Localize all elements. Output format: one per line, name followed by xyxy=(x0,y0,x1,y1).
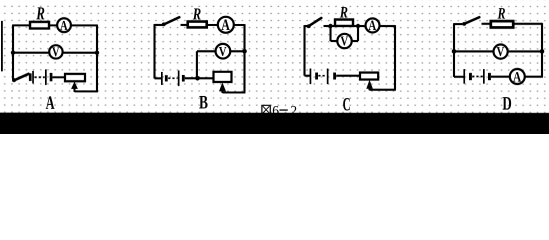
svg-text:R: R xyxy=(192,4,201,23)
rheostat (circuit A) xyxy=(65,74,85,81)
junction dot A left xyxy=(11,50,15,54)
wire C voltmeter loop left drop xyxy=(329,26,331,41)
voltmeter V4 (circuit D) xyxy=(494,45,508,61)
svg-text:A: A xyxy=(46,93,55,114)
scan black bar bottom xyxy=(0,113,549,135)
svg-text:C: C xyxy=(343,94,351,115)
wire C voltmeter loop right riser xyxy=(357,26,359,41)
wire C top under resistor xyxy=(353,25,367,27)
wire B top after switch xyxy=(181,24,191,26)
wire D right vertical xyxy=(541,23,543,77)
resistor R (circuit C) xyxy=(335,20,353,26)
junction dot C loop left xyxy=(328,24,332,28)
wire C voltmeter loop bottom left xyxy=(331,40,339,42)
wire C top left xyxy=(305,25,310,27)
svg-text:R: R xyxy=(497,6,506,23)
svg-text:R: R xyxy=(339,5,348,22)
rheostat slider arrow (circuit C) xyxy=(366,80,373,89)
wire battery dashes (circuit B) xyxy=(168,77,177,79)
svg-text:D: D xyxy=(502,93,511,114)
wire B top right xyxy=(206,24,244,26)
ammeter A2 (circuit B) xyxy=(218,17,234,34)
ammeter A4 (circuit D) xyxy=(510,69,525,86)
junction dot D right xyxy=(540,49,545,54)
battery (circuit A) xyxy=(29,69,53,85)
junction dot D left xyxy=(452,49,457,54)
wire D bottom left xyxy=(454,76,464,78)
junction dot A right xyxy=(95,51,99,55)
wire A bottom right segment xyxy=(74,90,98,92)
wire C bottom segment xyxy=(369,89,395,91)
switch pivot dot (circuit C) xyxy=(307,24,311,28)
svg-text:A: A xyxy=(221,17,230,34)
svg-text:V: V xyxy=(340,35,348,50)
svg-text:A: A xyxy=(368,18,376,34)
wire battery dashes (circuit A) xyxy=(34,76,44,78)
voltmeter V1 (circuit A) xyxy=(49,44,62,59)
svg-text:V: V xyxy=(219,45,227,60)
svg-text:A: A xyxy=(513,70,521,86)
svg-text:R: R xyxy=(36,4,45,24)
wire battery dashes (circuit C) xyxy=(318,75,326,77)
resistor R (circuit D) xyxy=(491,21,513,27)
wire C battery to rheostat xyxy=(336,75,361,77)
wire B battery row xyxy=(154,77,161,79)
wire C left vertical xyxy=(303,25,305,76)
switch pivot dot (circuit D) xyxy=(462,22,466,26)
wire B voltmeter row xyxy=(197,50,245,52)
rheostat slider arrow (circuit A) xyxy=(71,81,78,88)
switch S (circuit B) xyxy=(164,17,180,24)
rheostat (circuit C) xyxy=(360,73,378,80)
wire A right vertical xyxy=(96,25,98,92)
svg-text:V: V xyxy=(52,44,60,59)
wire battery dashes (circuit D) xyxy=(472,76,483,78)
wire D top right xyxy=(514,23,543,25)
wire D voltmeter row xyxy=(454,50,542,52)
wire B bottom right segment xyxy=(222,91,245,93)
wire B riser to voltmeter row xyxy=(196,51,198,78)
wire D top left xyxy=(454,23,465,25)
wire A top xyxy=(13,24,97,26)
svg-text:A: A xyxy=(60,19,68,34)
wire B top left xyxy=(155,24,165,26)
wire D ammeter to right xyxy=(524,76,542,78)
wire C top right xyxy=(380,25,395,27)
junction dot C loop right xyxy=(356,24,360,28)
wire slider stem (circuit A) xyxy=(73,86,75,92)
wire D top after switch xyxy=(482,23,493,25)
wire C battery row xyxy=(304,75,310,77)
rheostat (circuit B) xyxy=(213,72,231,82)
wire C right vertical xyxy=(394,25,396,90)
battery (circuit D) xyxy=(463,69,491,84)
wire slider stem (circuit B) xyxy=(221,89,223,93)
ammeter A3 (circuit C) xyxy=(366,18,380,34)
wire battery to rheostat (circuit A) xyxy=(52,76,66,78)
battery (circuit C) xyxy=(310,69,336,85)
rheostat slider arrow (circuit B) xyxy=(219,82,226,91)
wire C voltmeter loop bottom right xyxy=(352,40,359,42)
wire D left vertical xyxy=(453,23,455,77)
svg-text:B: B xyxy=(199,92,208,113)
wire C top after switch xyxy=(324,25,336,27)
ammeter A1 (circuit A) xyxy=(57,18,71,34)
wire D battery to ammeter xyxy=(491,76,510,78)
switch S (circuit C) xyxy=(309,18,322,26)
resistor R (circuit A) xyxy=(30,22,49,29)
switch pivot dot (circuit B) xyxy=(162,22,166,26)
wire slider stem (circuit C) xyxy=(368,87,370,91)
svg-text:V: V xyxy=(497,45,505,60)
figure caption 图6-2 xyxy=(262,103,297,118)
wire B left vertical xyxy=(153,24,155,78)
junction dot B battery node xyxy=(195,76,200,81)
switch S (circuit A) xyxy=(14,74,28,80)
scan-edge artifact line (left margin) xyxy=(1,21,3,72)
wire B right vertical xyxy=(243,24,245,92)
junction dot B right vertical xyxy=(242,49,247,54)
voltmeter V2 (circuit B) xyxy=(216,44,231,60)
wire A voltmeter row xyxy=(13,52,97,54)
resistor R (circuit B) xyxy=(188,22,207,28)
battery (circuit B) xyxy=(161,70,185,86)
voltmeter V3 (circuit C) xyxy=(337,34,351,50)
wire A left vertical xyxy=(12,24,14,79)
wire B battery to rheostat xyxy=(185,77,214,79)
switch S (circuit D) xyxy=(464,17,479,24)
